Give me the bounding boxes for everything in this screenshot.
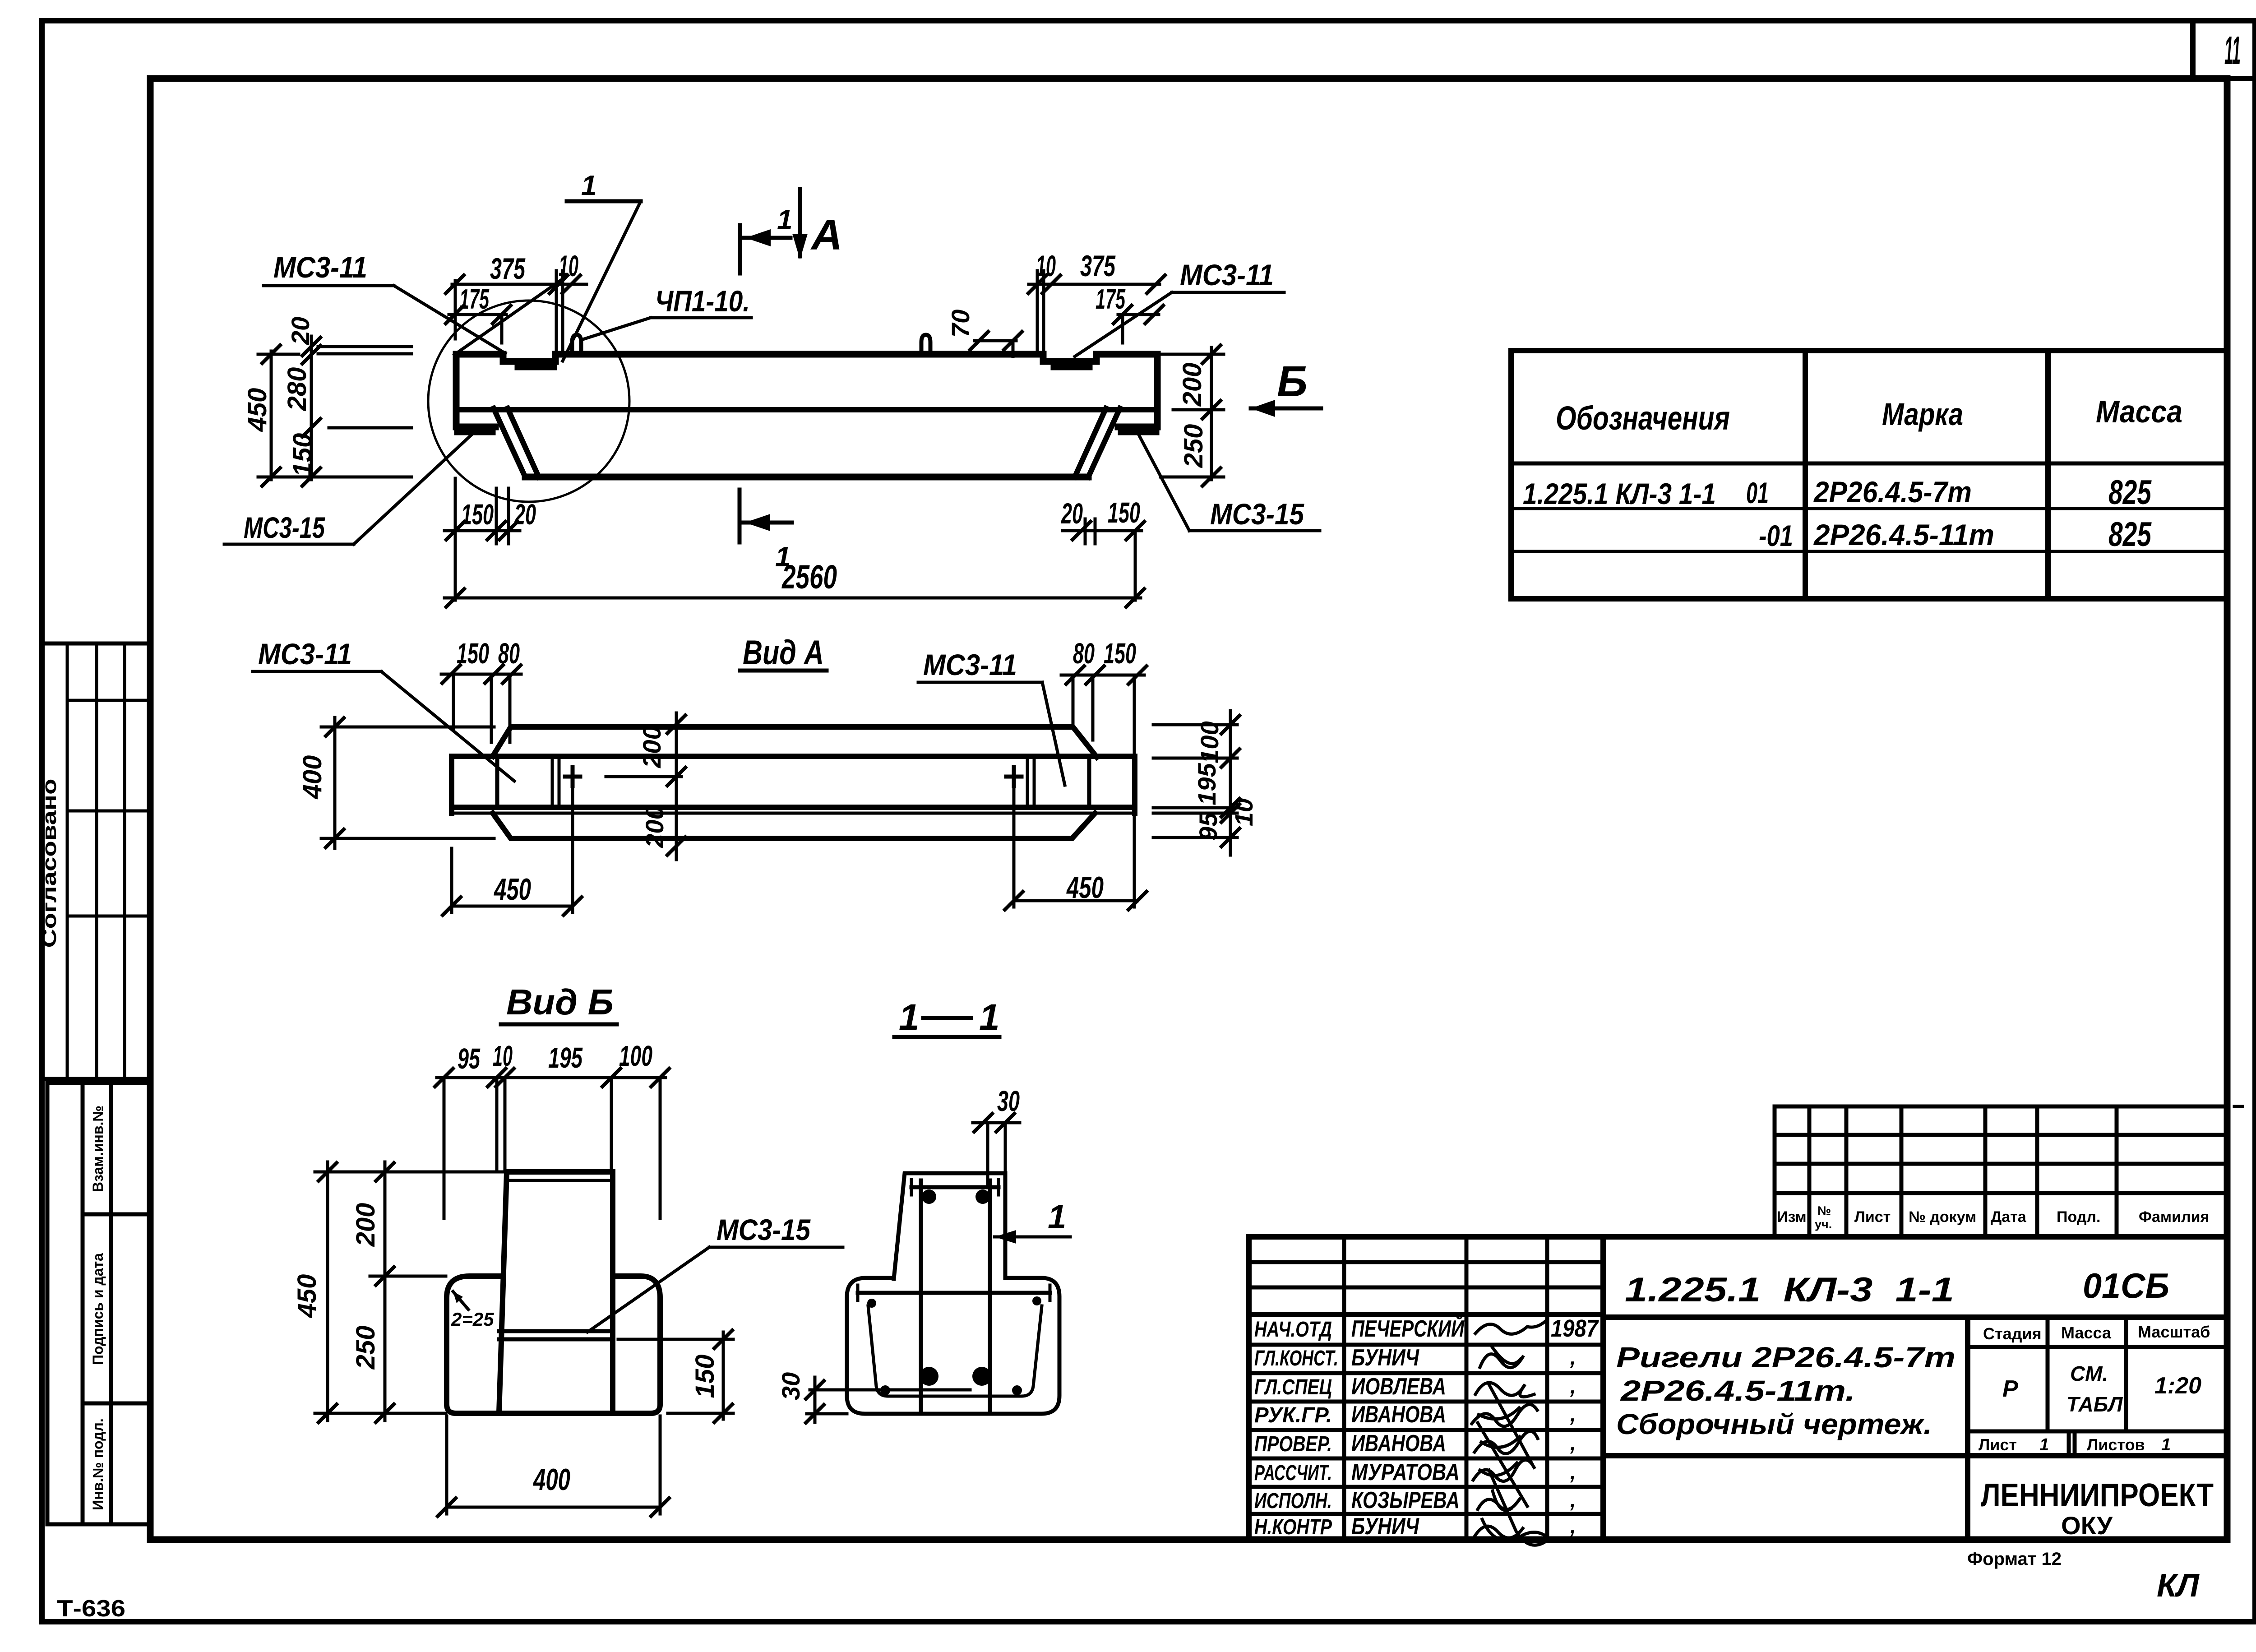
embedded plate MC3-11 right — [1054, 365, 1090, 370]
svg-text:175: 175 — [1096, 284, 1126, 315]
svg-text:400: 400 — [533, 1462, 571, 1497]
svg-text:195: 195 — [1193, 763, 1221, 805]
dim chain 100/195/10/95 right — [1229, 711, 1232, 855]
svg-text:СМ.: СМ. — [2070, 1362, 2108, 1385]
svg-text:Изм: Изм — [1777, 1208, 1807, 1226]
title block staff rows — [1249, 1260, 1603, 1264]
auxiliary diagonal to beam corner — [454, 277, 565, 355]
svg-text:Фамилия: Фамилия — [2139, 1208, 2209, 1226]
beam bottom edge — [525, 474, 1088, 481]
beam right end — [1118, 354, 1157, 427]
end block line left — [495, 756, 499, 807]
svg-text:Обозначения: Обозначения — [1556, 399, 1730, 437]
svg-text:1: 1 — [581, 170, 596, 201]
embedded plate MC3-15 left — [457, 430, 493, 435]
svg-text:200: 200 — [351, 1203, 380, 1247]
bottom rebar dots — [920, 1367, 938, 1386]
plate edge double lines right — [1026, 756, 1029, 807]
svg-text:ИОВЛЕВА: ИОВЛЕВА — [1351, 1374, 1446, 1400]
svg-text:Масштаб: Масштаб — [2138, 1323, 2210, 1341]
svg-text:МУРАТОВА: МУРАТОВА — [1351, 1459, 1460, 1485]
svg-text:20: 20 — [514, 498, 536, 531]
title block outline — [1249, 1237, 2227, 1540]
stirrup — [868, 1306, 1042, 1396]
svg-text:450: 450 — [292, 1274, 322, 1319]
svg-text:450: 450 — [243, 388, 272, 432]
anchor cross left — [565, 775, 580, 779]
svg-text:КЛ: КЛ — [2157, 1568, 2200, 1604]
svg-text:250: 250 — [351, 1326, 380, 1370]
svg-text:1: 1 — [899, 997, 920, 1038]
sheet row — [2067, 1431, 2071, 1456]
svg-text:250: 250 — [1179, 424, 1208, 468]
rebar base corner dots — [867, 1299, 876, 1308]
plan band outline — [452, 756, 1135, 807]
section mark 1 bottom — [738, 490, 742, 542]
svg-text:01СБ: 01СБ — [2083, 1266, 2169, 1305]
svg-text:Лист: Лист — [1979, 1435, 2017, 1454]
svg-text:1.225.1 КЛ-3 1-1: 1.225.1 КЛ-3 1-1 — [1523, 477, 1716, 510]
svg-text:11: 11 — [2224, 28, 2241, 73]
lifting loop ЧП1-10 left — [572, 335, 581, 354]
section mark 1 top with view arrow A — [738, 225, 742, 273]
svg-text:450: 450 — [494, 872, 532, 907]
left margin approval table (Согласовано) — [42, 643, 150, 1079]
svg-text:ОКУ: ОКУ — [2061, 1511, 2113, 1540]
svg-text:30: 30 — [777, 1372, 805, 1400]
svg-text:375: 375 — [1080, 249, 1116, 282]
svg-text:ИСПОЛН.: ИСПОЛН. — [1254, 1489, 1332, 1513]
detail circle — [428, 301, 629, 502]
svg-text:,: , — [1570, 1346, 1576, 1369]
svg-text:400: 400 — [298, 755, 327, 800]
left haunch slants — [494, 408, 525, 477]
svg-text:,: , — [1570, 1514, 1576, 1538]
svg-text:РАССЧИТ.: РАССЧИТ. — [1254, 1461, 1332, 1485]
svg-text:БУНИЧ: БУНИЧ — [1351, 1345, 1419, 1371]
end block line right — [1087, 756, 1091, 807]
designation row separator — [1603, 1314, 2227, 1320]
svg-text:ИВАНОВА: ИВАНОВА — [1351, 1430, 1446, 1457]
svg-text:МС3-11: МС3-11 — [273, 250, 367, 284]
svg-text:уч.: уч. — [1815, 1217, 1832, 1231]
svg-text:1:20: 1:20 — [2154, 1373, 2201, 1399]
svg-text:,: , — [1570, 1460, 1576, 1484]
svg-text:100: 100 — [619, 1040, 652, 1072]
svg-text:1: 1 — [775, 541, 791, 573]
beam mid ledge line — [456, 407, 1157, 412]
svg-text:150: 150 — [690, 1355, 720, 1398]
svg-text:Лист: Лист — [1854, 1208, 1891, 1226]
svg-text:РУК.ГР.: РУК.ГР. — [1254, 1403, 1332, 1427]
svg-text:825: 825 — [2108, 515, 2152, 554]
svg-text:Листов: Листов — [2087, 1435, 2145, 1454]
svg-text:Стадия: Стадия — [1983, 1324, 2042, 1343]
svg-text:1987: 1987 — [1551, 1315, 1600, 1342]
svg-text:2Р26.4.5-11т.: 2Р26.4.5-11т. — [1620, 1374, 1855, 1407]
rebar vertical bars — [919, 1180, 923, 1410]
svg-text:Р: Р — [2002, 1376, 2018, 1402]
embedded plate MC3-15 right — [1121, 430, 1156, 435]
svg-text:150: 150 — [1108, 496, 1140, 529]
svg-text:ИВАНОВА: ИВАНОВА — [1351, 1402, 1446, 1428]
svg-text:375: 375 — [490, 252, 526, 285]
svg-text:МС3-11: МС3-11 — [1180, 258, 1274, 292]
anchor cross right — [1006, 775, 1022, 779]
svg-text:ГЛ.СПЕЦ: ГЛ.СПЕЦ — [1254, 1375, 1332, 1399]
svg-text:БУНИЧ: БУНИЧ — [1351, 1513, 1419, 1540]
svg-text:Инв.№ подл.: Инв.№ подл. — [90, 1418, 106, 1510]
svg-text:НАЧ.ОТД: НАЧ.ОТД — [1254, 1318, 1332, 1342]
svg-text:200: 200 — [638, 726, 666, 768]
svg-text:ПЕЧЕРСКИЙ: ПЕЧЕРСКИЙ — [1351, 1315, 1465, 1342]
svg-text:КОЗЫРЕВА: КОЗЫРЕВА — [1351, 1487, 1460, 1513]
svg-text:МС3-11: МС3-11 — [923, 648, 1017, 681]
plate MC3-15 double line — [499, 1329, 613, 1333]
svg-text:175: 175 — [459, 284, 490, 315]
svg-text:1: 1 — [1048, 1198, 1066, 1236]
svg-text:150: 150 — [461, 498, 494, 531]
svg-text:ПРОВЕР.: ПРОВЕР. — [1254, 1432, 1332, 1456]
svg-text:01: 01 — [1746, 476, 1769, 509]
svg-text:,: , — [1570, 1374, 1576, 1398]
left margin stamp cells block — [47, 1083, 150, 1524]
svg-text:1.225.1 КЛ-3 1-1: 1.225.1 КЛ-3 1-1 — [1625, 1271, 1954, 1309]
beam left end — [456, 354, 495, 427]
svg-text:МС3-15: МС3-15 — [1210, 497, 1304, 531]
svg-text:Взам.инв.№: Взам.инв.№ — [90, 1106, 106, 1192]
svg-text:2Р26.4.5-11т: 2Р26.4.5-11т — [1813, 518, 1994, 551]
svg-text:,: , — [1570, 1431, 1576, 1455]
plan band thin line — [452, 812, 1135, 815]
plan bottom hex edge — [493, 813, 1095, 838]
svg-text:Марка: Марка — [1882, 397, 1963, 432]
svg-text:ТАБЛ: ТАБЛ — [2066, 1393, 2123, 1416]
stage/mass/scale sub-table — [1965, 1317, 1970, 1540]
svg-text:1: 1 — [777, 204, 792, 236]
plan top hex edge — [493, 727, 1097, 757]
svg-text:ГЛ.КОНСТ.: ГЛ.КОНСТ. — [1254, 1347, 1338, 1370]
svg-text:195: 195 — [548, 1041, 583, 1074]
rebar dots top — [922, 1189, 936, 1204]
stem outline — [499, 1172, 507, 1412]
svg-text:Т-636: Т-636 — [57, 1596, 125, 1622]
centre extension line — [606, 775, 681, 778]
svg-text:Формат 12: Формат 12 — [1967, 1549, 2062, 1569]
svg-text:1: 1 — [2161, 1435, 2171, 1454]
svg-text:2=25: 2=25 — [451, 1309, 494, 1330]
svg-text:,: , — [1570, 1488, 1576, 1512]
sheet number box divider — [2190, 21, 2196, 79]
svg-text:Дата: Дата — [1991, 1208, 2027, 1226]
svg-text:,: , — [1570, 1402, 1576, 1426]
svg-text:МС3-15: МС3-15 — [717, 1213, 811, 1246]
marks table (Обозначения/Марка/Масса) — [1511, 351, 2227, 599]
beam top edge with recesses — [456, 354, 1157, 361]
inner frame top extension to border — [2227, 76, 2255, 81]
svg-text:Подпись и дата: Подпись и дата — [90, 1253, 106, 1365]
svg-text:10: 10 — [493, 1040, 513, 1072]
right haunch slants — [1088, 408, 1120, 477]
svg-text:Ригели 2Р26.4.5-7т: Ригели 2Р26.4.5-7т — [1616, 1341, 1956, 1374]
svg-text:-01: -01 — [1759, 519, 1793, 552]
svg-text:№ докум: № докум — [1909, 1208, 1976, 1226]
svg-text:30: 30 — [997, 1085, 1020, 1117]
svg-text:1: 1 — [979, 997, 1000, 1038]
svg-text:Подл.: Подл. — [2057, 1208, 2100, 1226]
svg-text:Согласовано: Согласовано — [38, 779, 60, 948]
svg-text:70: 70 — [946, 310, 975, 338]
svg-text:ЧП1-10.: ЧП1-10. — [655, 284, 750, 318]
revision table — [1775, 1105, 2227, 1109]
title block staff columns — [1342, 1237, 1346, 1540]
svg-text:1: 1 — [2039, 1435, 2049, 1454]
svg-text:МС3-15: МС3-15 — [244, 511, 325, 544]
svg-text:Вид А: Вид А — [743, 634, 824, 672]
svg-text:№: № — [1817, 1204, 1831, 1217]
svg-text:95: 95 — [458, 1042, 481, 1075]
svg-text:А: А — [810, 211, 842, 259]
plate edge double lines left — [551, 756, 554, 807]
svg-text:ЛЕННИИПРОЕКТ: ЛЕННИИПРОЕКТ — [1981, 1477, 2214, 1513]
rebar base bar — [858, 1291, 1050, 1295]
svg-text:825: 825 — [2108, 473, 2152, 512]
svg-text:20: 20 — [1061, 497, 1083, 530]
base outline — [447, 1276, 660, 1413]
dim line 200/200 — [675, 713, 678, 860]
dash mark — [2234, 1105, 2242, 1108]
svg-text:Н.КОНТР: Н.КОНТР — [1254, 1515, 1332, 1539]
svg-text:2Р26.4.5-7т: 2Р26.4.5-7т — [1813, 475, 1972, 509]
svg-text:200: 200 — [640, 805, 669, 848]
svg-text:Сборочный чертеж.: Сборочный чертеж. — [1616, 1408, 1932, 1440]
svg-text:Масса: Масса — [2061, 1323, 2112, 1342]
svg-text:МС3-11: МС3-11 — [258, 637, 352, 671]
embedded plate MC3-11 left — [518, 365, 554, 370]
signatures — [1475, 1321, 1545, 1334]
svg-text:Вид Б: Вид Б — [506, 982, 614, 1022]
section stem outline — [894, 1173, 1005, 1279]
lifting loop right — [921, 335, 930, 354]
svg-text:200: 200 — [1178, 363, 1207, 407]
rebar top bar — [911, 1185, 999, 1189]
svg-text:Масса: Масса — [2096, 394, 2182, 429]
svg-text:280: 280 — [282, 367, 312, 412]
section base outline — [847, 1278, 1059, 1414]
svg-text:150: 150 — [1104, 637, 1136, 670]
svg-text:Б: Б — [1277, 357, 1308, 406]
